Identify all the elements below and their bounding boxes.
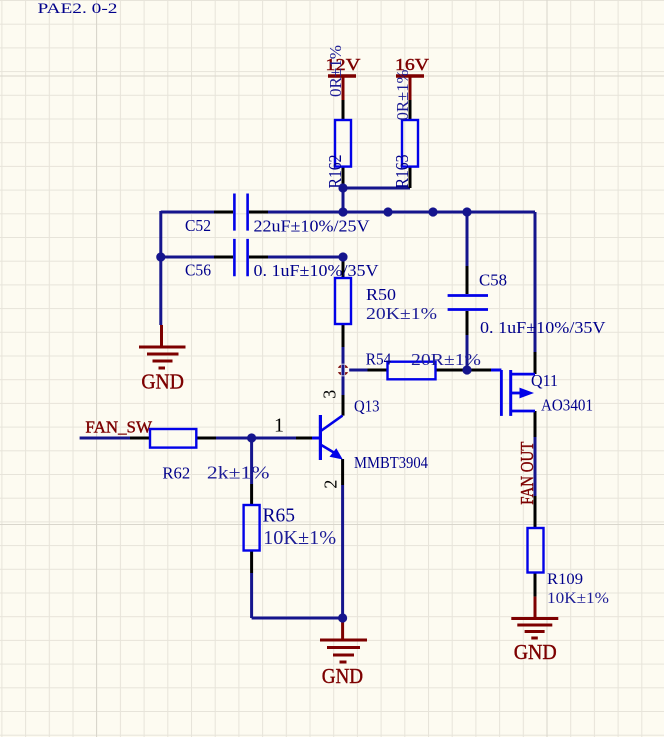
resistor R163 — [392, 70, 418, 189]
svg-text:R62: R62 — [162, 464, 190, 483]
junction dot rail 1 — [338, 207, 347, 216]
svg-text:R163: R163 — [392, 154, 412, 188]
pin Q13 collector lead — [342, 395, 345, 416]
wire: C52 left lead segment — [161, 211, 214, 214]
pin C52 leads — [214, 211, 268, 214]
svg-text:MMBT3904: MMBT3904 — [354, 453, 428, 472]
resistor R62 — [150, 429, 270, 483]
wire: FAN_SW to R62 — [80, 437, 130, 440]
transistor Q13 MMBT3904 — [312, 397, 428, 473]
pin C56 leads — [214, 256, 268, 259]
svg-text:R65: R65 — [263, 504, 296, 526]
wire: C56 row — [161, 256, 343, 259]
svg-text:C56: C56 — [185, 261, 211, 280]
pin C58 leads — [466, 266, 469, 335]
svg-text:22uF±10%/25V: 22uF±10%/25V — [254, 216, 371, 235]
pin Q11 drain lead — [534, 352, 537, 374]
svg-text:AO3401: AO3401 — [541, 396, 593, 415]
wire: R65 bottom L to GND node — [252, 573, 343, 618]
svg-text:C58: C58 — [479, 271, 507, 290]
svg-text:GND: GND — [141, 369, 184, 393]
pin R62 leads — [130, 437, 216, 440]
wire: left vertical to GND — [159, 211, 162, 325]
power port 12V — [325, 55, 361, 100]
capacitor C52 — [185, 194, 370, 236]
power port 16V — [395, 55, 430, 100]
wire: top rail 12V net — [268, 188, 535, 352]
pin number 2 — [321, 480, 341, 489]
capacitor C58 — [448, 271, 607, 338]
svg-text:Q11: Q11 — [531, 371, 558, 390]
junction dot power — [338, 183, 347, 192]
svg-text:Q13: Q13 — [354, 397, 380, 416]
svg-text:0. 1uF±10%/35V: 0. 1uF±10%/35V — [254, 261, 380, 280]
svg-text:10K±1%: 10K±1% — [263, 527, 336, 549]
title text PAE2.0-2 — [38, 1, 118, 17]
pin R162 leads — [342, 100, 345, 188]
wire: junction down to R65 — [250, 438, 253, 484]
junction dot emitter GND — [338, 613, 347, 622]
svg-text:FAN_SW: FAN_SW — [85, 418, 153, 437]
svg-text:20R±1%: 20R±1% — [411, 350, 481, 369]
pin R65 leads — [250, 484, 253, 573]
junction dot rail 4 — [462, 207, 471, 216]
svg-text:GND: GND — [322, 664, 363, 688]
resistor R65 — [244, 504, 337, 550]
resistor R109 — [528, 528, 610, 607]
pin number 1 — [274, 415, 284, 437]
pin number 3 — [320, 390, 340, 399]
pin Q13 emitter lead — [341, 459, 344, 485]
pin Q11 source lead — [534, 411, 537, 437]
junction dot base — [247, 433, 256, 442]
pin Q13 base lead black part — [296, 437, 312, 440]
wire: R50 bottom to node — [342, 347, 345, 365]
junction dot C56 left — [156, 252, 165, 261]
junction dot C56 right — [338, 252, 347, 261]
svg-text:PAE2. 0-2: PAE2. 0-2 — [38, 1, 118, 17]
svg-text:FAN OUT: FAN OUT — [517, 441, 537, 504]
net label FAN OUT (vertical) — [517, 441, 537, 504]
wire: emitter down to GND node — [341, 485, 344, 618]
svg-text:1: 1 — [274, 415, 284, 437]
svg-text:20K±1%: 20K±1% — [366, 304, 437, 323]
ground GND center — [320, 618, 367, 688]
ground GND left — [139, 325, 186, 393]
svg-text:GND: GND — [514, 640, 557, 664]
junction dot rail 3 — [428, 207, 437, 216]
net label FAN_SW — [85, 418, 153, 437]
svg-text:0. 1uF±10%/35V: 0. 1uF±10%/35V — [480, 318, 606, 337]
svg-text:C52: C52 — [185, 216, 211, 235]
junction dot rail 2 — [383, 207, 392, 216]
pin R50 leads — [342, 257, 345, 347]
resistor R50 — [335, 278, 437, 324]
pin R54 leads — [368, 369, 492, 372]
svg-text:R109: R109 — [547, 571, 583, 588]
svg-text:2: 2 — [321, 480, 341, 489]
wire: Q11 source to R109 — [534, 437, 537, 496]
svg-text:R54: R54 — [366, 349, 392, 368]
pin R163 leads — [409, 100, 412, 188]
junction dot R54 right — [462, 365, 471, 374]
svg-text:0R±1%: 0R±1% — [393, 70, 412, 121]
svg-text:R50: R50 — [366, 285, 396, 304]
node marker (red target) on collector node — [337, 364, 349, 376]
wire: C58 branch — [466, 212, 469, 370]
resistor R162 — [325, 45, 351, 189]
wire: R62 to base junction — [216, 437, 296, 440]
svg-text:2k±1%: 2k±1% — [207, 462, 270, 482]
wire: node to R54 and gate — [348, 369, 368, 372]
svg-text:3: 3 — [320, 390, 340, 399]
pin R109 leads — [534, 496, 537, 597]
svg-text:R162: R162 — [325, 155, 345, 189]
capacitor C56 — [185, 239, 379, 280]
wire: collector segment — [342, 373, 345, 395]
mosfet Q11 AO3401 — [491, 370, 593, 416]
resistor R54 — [366, 349, 481, 379]
ground GND right — [511, 597, 558, 664]
svg-text:10K±1%: 10K±1% — [547, 590, 609, 607]
svg-text:0R±1%: 0R±1% — [326, 45, 345, 97]
